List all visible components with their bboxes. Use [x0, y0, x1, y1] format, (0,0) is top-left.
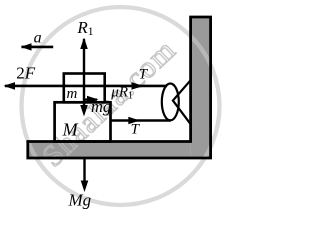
- friction arrow muR1 (right): [84, 96, 99, 104]
- label a: [34, 30, 42, 47]
- label Mg: [68, 191, 92, 210]
- svg-text:T: T: [131, 122, 141, 138]
- acceleration arrow a (left): [21, 43, 54, 50]
- svg-text:M: M: [62, 119, 79, 139]
- block m: [64, 74, 105, 103]
- label R1: [76, 18, 93, 38]
- force arrow Mg (down): [81, 158, 89, 192]
- force arrow mg (down): [80, 105, 88, 117]
- force arrow 2F (left): [4, 82, 16, 90]
- watermark text: [36, 33, 183, 173]
- label mg: [91, 97, 111, 116]
- label T top: [139, 67, 149, 83]
- pulley bracket: [173, 79, 192, 125]
- force arrow T lower (right): [128, 117, 140, 125]
- force arrow R1 (up): [80, 38, 88, 50]
- wire lower string T: [111, 119, 172, 122]
- label m: [67, 86, 78, 102]
- L-shape outline (wall+floor border): [28, 17, 211, 158]
- svg-text:2F: 2F: [16, 63, 36, 82]
- force line R1/mg vertical shaft: [83, 39, 85, 107]
- svg-text:Mg: Mg: [68, 191, 92, 210]
- wall: [191, 17, 211, 158]
- floor: [28, 142, 191, 159]
- pulley: [162, 84, 179, 121]
- label T lower: [131, 122, 141, 138]
- force arrow T top (right): [132, 82, 144, 90]
- label M: [62, 119, 79, 139]
- svg-text:R1: R1: [76, 18, 93, 38]
- block M: [55, 102, 111, 141]
- svg-text:m: m: [67, 86, 78, 102]
- svg-text:a: a: [34, 30, 42, 47]
- wire long horizontal line (2F / top string T): [5, 85, 167, 88]
- label muR1: [110, 85, 133, 102]
- watermark circle: [22, 7, 220, 205]
- label 2F: [16, 63, 36, 82]
